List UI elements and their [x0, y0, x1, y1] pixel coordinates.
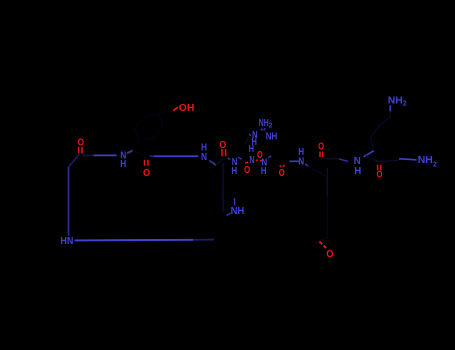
- phenol ring (faint): [133, 110, 171, 149]
- svg-text:O: O: [326, 249, 333, 260]
- macrocycle vertical wire: [68, 167, 70, 236]
- bond Nb stub: [268, 156, 271, 158]
- lysine NH2: [388, 95, 407, 107]
- arg side chain faint: [246, 136, 249, 145]
- terminal amide O: [377, 170, 383, 181]
- bond C1-N1 bright half: [94, 154, 117, 156]
- amide Ha: [249, 144, 254, 155]
- carbonyl O top: [257, 150, 263, 161]
- bond C3-C4 faint: [216, 159, 223, 165]
- carbonyl O5: [318, 142, 324, 153]
- macrocycle long bond dark tail: [193, 239, 214, 241]
- indole NH: [231, 206, 245, 217]
- amide N2: [201, 152, 207, 163]
- amide N6: [354, 156, 361, 167]
- carbonyl O1: [78, 138, 84, 149]
- svg-text:NH: NH: [388, 95, 403, 106]
- terminal NH2: [418, 155, 437, 169]
- svg-text:O: O: [143, 168, 150, 179]
- double bond C=O terminal: [378, 165, 381, 170]
- svg-text:H: H: [354, 166, 361, 177]
- amide Hb: [261, 166, 267, 177]
- ketone double bond dashes: [319, 242, 326, 249]
- carbonyl O4: [219, 140, 226, 151]
- svg-text:2: 2: [433, 161, 437, 168]
- svg-text:2: 2: [403, 100, 407, 107]
- double bond C4=O4: [222, 149, 226, 156]
- bond N5 right stub: [238, 157, 242, 159]
- svg-text:2: 2: [269, 123, 273, 130]
- ketone O: [326, 249, 333, 260]
- bond N6-Ca bright: [364, 151, 375, 157]
- stereo wedge N1-Ca: [127, 150, 133, 155]
- svg-text:HN: HN: [60, 236, 73, 247]
- svg-text:H: H: [261, 166, 267, 177]
- guanidine NH2: [259, 118, 273, 130]
- svg-text:O: O: [377, 170, 383, 181]
- double bond C1=O1: [79, 147, 82, 153]
- svg-text:N: N: [298, 156, 304, 167]
- svg-text:NH: NH: [231, 206, 245, 217]
- amide H2: [201, 143, 207, 154]
- svg-text:O: O: [78, 138, 84, 149]
- carbonyl O6: [244, 165, 250, 176]
- bond N7-C stub: [305, 164, 308, 166]
- guanidine C=N dashes: [261, 128, 265, 130]
- svg-text:O: O: [279, 168, 285, 179]
- carbonyl O2: [143, 168, 150, 179]
- svg-text:H: H: [120, 159, 126, 170]
- red dash a: [256, 159, 258, 162]
- guanidine side-chain stub: [249, 134, 251, 135]
- phenacyl chain faint: [308, 166, 327, 177]
- amide N7: [298, 156, 304, 167]
- bond C2-N2 dark half: [150, 155, 155, 157]
- bond C-OH of phenol: [173, 107, 178, 111]
- hydroxyl OH: [179, 103, 195, 114]
- amide Na: [249, 155, 254, 166]
- indole C3-N stub: [227, 213, 231, 215]
- carbonyl O7: [279, 168, 285, 179]
- double bond dashes O7: [280, 165, 285, 167]
- svg-text:NH: NH: [418, 155, 433, 166]
- phenacyl wire upper faint: [326, 168, 328, 196]
- red dash b: [260, 160, 262, 161]
- macrocycle HN: [60, 236, 73, 247]
- bond C-NH2 terminal bright: [399, 159, 417, 160]
- phenacyl chain lower (invisible): [319, 196, 327, 241]
- amide N5: [232, 157, 238, 168]
- bond C1-C ring diagonal: [69, 154, 80, 167]
- stereo wedge N2-C3: [209, 159, 217, 166]
- svg-text:H: H: [231, 166, 237, 177]
- amide H1: [120, 159, 126, 170]
- double bond C5=O5: [320, 152, 323, 157]
- bonds Ca-C7t faint: [366, 156, 399, 162]
- bond C5 right faint: [325, 158, 339, 160]
- guanidine H below: [252, 137, 257, 148]
- bond Ca-C2 faint: [133, 151, 147, 158]
- bond C2-N2 bright: [154, 155, 198, 157]
- amide H5: [231, 166, 237, 177]
- double bond C2=O2: [145, 160, 149, 166]
- bond C4-N5 stub: [228, 158, 230, 159]
- amide N1: [120, 150, 126, 161]
- svg-text:OH: OH: [179, 103, 195, 114]
- svg-text:NH: NH: [266, 131, 277, 142]
- bond CH2-NH2 bright: [389, 105, 391, 111]
- svg-text:N: N: [201, 152, 207, 163]
- amide Nb: [261, 158, 267, 169]
- lysine chain faint: [371, 111, 391, 151]
- tryptophan CH2 wire faint: [222, 163, 224, 212]
- svg-text:O: O: [244, 165, 250, 176]
- guanidine N left: [252, 130, 258, 141]
- guanidine NH right: [266, 131, 277, 142]
- svg-text:H: H: [249, 144, 254, 155]
- svg-text:O: O: [318, 142, 324, 153]
- bond C7-N7 bright: [290, 160, 300, 162]
- double bond dash O6: [245, 162, 248, 163]
- amide H6: [354, 166, 361, 177]
- amide H7: [298, 147, 304, 158]
- bond C1-N1 dark half: [83, 154, 94, 156]
- bond into N6: [339, 159, 348, 161]
- indole C2 stub: [234, 198, 236, 205]
- svg-text:NH: NH: [259, 118, 269, 129]
- macrocycle long bond bright: [75, 239, 194, 242]
